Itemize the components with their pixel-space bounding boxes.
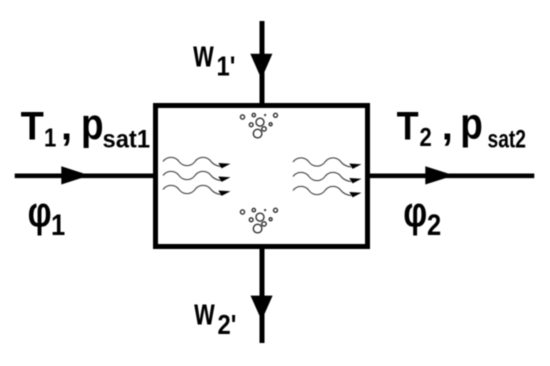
svg-text:sat1: sat1 xyxy=(103,126,151,154)
label phi2 xyxy=(403,189,441,242)
svg-text:1': 1' xyxy=(217,50,236,82)
wavy arrowhead left 1 xyxy=(218,163,230,168)
svg-text:1: 1 xyxy=(44,124,56,153)
wavy stream right 2 xyxy=(293,172,351,181)
label w2' xyxy=(193,290,236,341)
wire: left inlet horizontal line xyxy=(15,174,155,179)
label T2 , psat2 xyxy=(397,99,526,153)
svg-text:2': 2' xyxy=(218,308,237,340)
wavy arrowhead left 2 xyxy=(218,177,230,182)
svg-text:,: , xyxy=(61,105,72,149)
bubble cluster bottom xyxy=(240,208,277,233)
label w1' xyxy=(192,31,235,82)
wire: inlet w1' vertical line xyxy=(260,21,265,105)
svg-text:p: p xyxy=(81,99,104,149)
arrowhead w1' (down) xyxy=(250,54,272,79)
wavy arrowhead right 2 xyxy=(349,178,361,183)
svg-text:w: w xyxy=(192,31,214,74)
wavy stream right 3 xyxy=(293,186,351,195)
wavy arrowhead left 3 xyxy=(218,191,230,196)
wire: right outlet horizontal line xyxy=(368,174,534,179)
label phi1 xyxy=(28,189,66,242)
wavy stream left 3 xyxy=(163,185,221,194)
svg-text:1: 1 xyxy=(51,208,65,241)
svg-text:w: w xyxy=(193,290,215,333)
wavy stream right 1 xyxy=(293,158,351,167)
wavy stream left 2 xyxy=(163,171,221,180)
svg-text:2: 2 xyxy=(427,208,441,241)
svg-text:p: p xyxy=(460,99,483,149)
arrowhead w2' (down) xyxy=(251,296,273,321)
svg-text:sat2: sat2 xyxy=(488,125,527,153)
svg-text:2: 2 xyxy=(420,123,432,152)
svg-text:T: T xyxy=(397,105,419,149)
svg-text:,: , xyxy=(442,105,453,149)
label T1 , psat1 xyxy=(21,99,150,154)
arrowhead right outlet (right) xyxy=(425,166,454,184)
wavy stream left 1 xyxy=(163,157,221,166)
wire: outlet w2' vertical line xyxy=(260,247,265,343)
svg-text:φ: φ xyxy=(403,189,427,237)
svg-text:φ: φ xyxy=(28,189,52,237)
arrowhead left inlet (right) xyxy=(61,166,89,184)
wavy arrowhead right 3 xyxy=(349,192,361,197)
process box xyxy=(156,106,368,247)
bubble cluster top xyxy=(240,113,277,138)
wavy arrowhead right 1 xyxy=(349,164,361,169)
svg-text:T: T xyxy=(21,105,44,149)
